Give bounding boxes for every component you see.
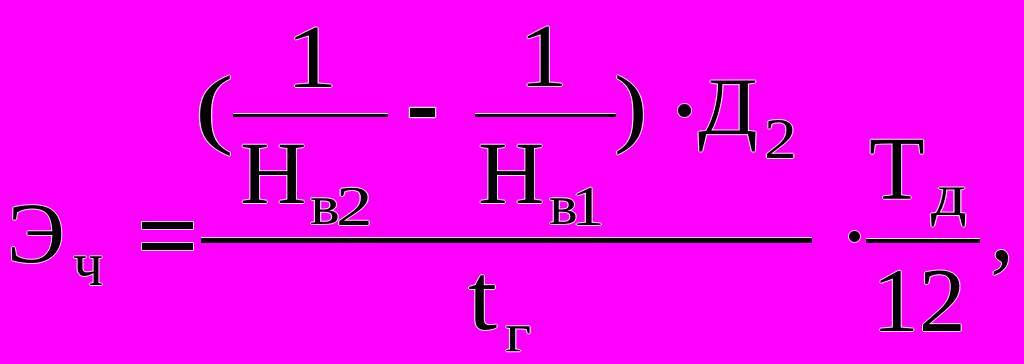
denominator Н of first inner fraction	[240, 130, 306, 219]
multiplication dot before Д	[678, 104, 691, 117]
right parenthesis	[614, 63, 647, 151]
denominator 12 of last fraction	[872, 255, 966, 346]
white fringe above last fraction bar	[866, 238, 980, 239]
denominator t of main fraction	[468, 250, 497, 346]
white fringe above first inner fraction bar	[233, 113, 388, 114]
subscript ч of Э	[73, 233, 103, 295]
last fraction bar	[866, 239, 980, 243]
equals sign, top stroke	[142, 222, 193, 229]
subscript 2 of Д	[764, 111, 797, 168]
symbol Д	[698, 66, 758, 147]
numerator Т of last fraction	[869, 124, 925, 215]
first inner fraction bar	[233, 114, 388, 117]
numerator 1 of first inner fraction	[286, 12, 338, 103]
minus sign	[410, 108, 435, 117]
main fraction bar	[201, 238, 812, 242]
subscript в of second Н	[549, 178, 578, 234]
multiplication dot before Т fraction	[849, 231, 860, 242]
subscript 2 of first Н	[336, 179, 373, 235]
subscript 1 of second Н	[571, 179, 605, 235]
second inner fraction bar	[475, 114, 616, 117]
subscript г of t	[505, 307, 531, 361]
trailing comma	[990, 180, 1014, 278]
numerator 1 of second inner fraction	[519, 11, 568, 102]
symbol Э (effect variable)	[7, 190, 65, 276]
subscript д of Т	[931, 166, 967, 225]
denominator Н of second inner fraction	[478, 130, 544, 219]
equals sign, bottom stroke	[142, 243, 193, 250]
white fringe above second inner fraction bar	[475, 113, 616, 114]
subscript в of first Н	[310, 178, 340, 234]
white fringe above main fraction bar	[201, 237, 812, 238]
left parenthesis	[195, 64, 233, 153]
